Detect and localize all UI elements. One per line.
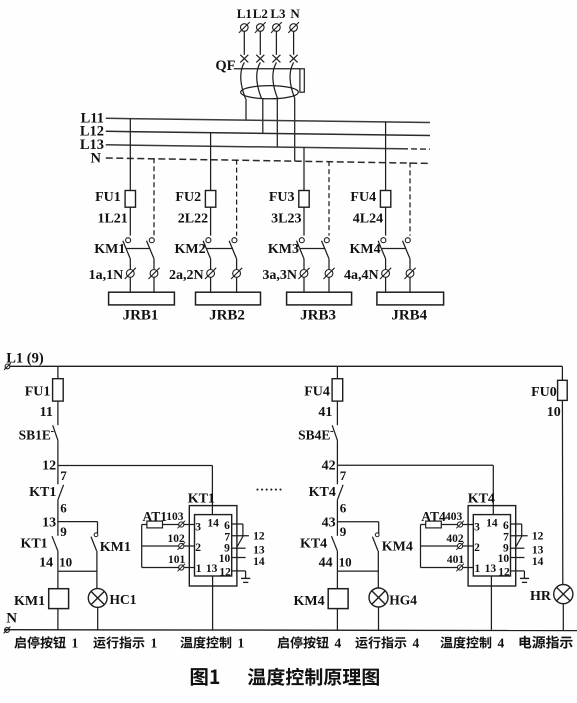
wire control bus L1(9) (10, 365, 563, 367)
svg-text:KT4: KT4 (309, 485, 336, 500)
svg-text:KT1: KT1 (188, 492, 215, 507)
wire 4L24 (353, 207, 386, 235)
wire from supply terminal to QF (275, 31, 277, 54)
svg-text:KT4: KT4 (468, 492, 495, 507)
wire terminals to heater JRB3 (304, 278, 329, 293)
bus L12 (80, 124, 430, 140)
svg-text:SB4E: SB4E (298, 428, 330, 443)
wire KT1 pin 9 to node 13 (232, 545, 265, 557)
fuse FU3 (269, 190, 309, 207)
svg-text:101: 101 (168, 554, 186, 566)
svg-text:42: 42 (322, 458, 336, 473)
svg-text:KM2: KM2 (174, 242, 205, 257)
svg-text:AT4: AT4 (421, 509, 446, 524)
svg-text:KM4: KM4 (349, 242, 380, 257)
label temperature control 1 (180, 635, 244, 650)
ellipsis between sections (256, 489, 281, 491)
svg-text:1a,1N: 1a,1N (89, 268, 124, 283)
wire neutral tap branch 1 (dashed) (153, 158, 155, 235)
wire from supply terminal to QF (243, 31, 245, 54)
fuse FU0 (531, 366, 567, 400)
svg-text:KM1: KM1 (14, 594, 45, 609)
svg-text:FU3: FU3 (269, 190, 295, 205)
wire terminals to heater JRB1 (130, 278, 154, 293)
wire KT4 pin 7 to node 12 (511, 531, 544, 543)
svg-text:43: 43 (322, 516, 336, 531)
svg-text:6: 6 (340, 500, 347, 515)
wire KT4 pin 10 to node 14 (511, 556, 544, 568)
fuse FU1 (95, 190, 135, 207)
svg-text:KM4: KM4 (382, 539, 413, 554)
timer contact KT1 pins 9-10 (20, 522, 72, 572)
circuit breaker QF (215, 55, 304, 99)
svg-text:6: 6 (60, 500, 67, 515)
label start/stop button 1 (14, 635, 78, 650)
wire node 44 branch (337, 570, 378, 572)
terminal wire 103 (166, 511, 194, 528)
wire node 42 to KT4 pin 14 (337, 465, 493, 514)
svg-text:KM4: KM4 (293, 594, 324, 609)
node L3 (incoming phase) (270, 6, 286, 33)
svg-text:11: 11 (40, 405, 53, 420)
wire contacts to terminals branch 4 (386, 259, 410, 270)
svg-text:3: 3 (195, 521, 201, 533)
wire from supply terminal to QF (259, 31, 261, 54)
svg-text:9: 9 (60, 524, 67, 539)
svg-text:2: 2 (195, 542, 201, 554)
fuse FU4 (304, 366, 342, 401)
terminals 1a,1N (89, 268, 160, 283)
node L1 (incoming phase) (237, 6, 252, 33)
svg-text:13: 13 (206, 563, 218, 575)
wire KT4 pin 9 to node 13 (511, 545, 544, 557)
svg-text:JRB3: JRB3 (300, 308, 336, 324)
wire button to node 12 (57, 440, 59, 465)
sensor loop wire KT1 (141, 525, 143, 568)
indicator lamp HG4 (369, 588, 417, 630)
svg-text:2: 2 (474, 542, 480, 554)
node L1 (9) control supply (4, 351, 44, 370)
svg-text:KM1: KM1 (100, 540, 131, 555)
wire node 14 branch (58, 570, 98, 572)
svg-text:41: 41 (318, 405, 332, 420)
svg-text:FU4: FU4 (350, 190, 376, 205)
svg-text:4: 4 (335, 635, 342, 650)
svg-text:JRB2: JRB2 (209, 308, 245, 324)
svg-text:12: 12 (498, 566, 510, 578)
svg-text:9: 9 (340, 524, 347, 539)
svg-text:14: 14 (532, 556, 544, 568)
svg-text:1: 1 (196, 563, 202, 575)
wire QF pole L1 to bus L11 (245, 99, 247, 121)
svg-text:14: 14 (486, 518, 498, 530)
heater JRB1 (109, 292, 175, 323)
svg-text:1L21: 1L21 (97, 212, 127, 227)
wire 11 (40, 401, 58, 425)
terminals 2a,2N (169, 268, 242, 283)
svg-text:1: 1 (72, 635, 79, 650)
terminal wire 102 (142, 533, 195, 550)
svg-text:N: N (290, 6, 300, 21)
svg-text:401: 401 (447, 554, 465, 566)
caption Figure 1 temperature control schematic (191, 668, 379, 686)
wire neutral tap branch 4 (dashed) (409, 162, 411, 235)
svg-text:13: 13 (42, 516, 56, 531)
wire KT4 pin 13 to N (490, 576, 492, 630)
svg-text:3L23: 3L23 (271, 212, 301, 227)
pushbutton SB1E (19, 425, 58, 442)
wire node 12 to KT1 pin 14 (58, 466, 213, 515)
heater JRB4 (377, 292, 444, 323)
label temperature control 4 (440, 635, 504, 650)
temperature controller KT4 (468, 492, 516, 586)
wire KT1 pin 7 to node 12 (232, 531, 265, 543)
sensor loop wire KT4 (420, 525, 422, 568)
svg-text:10: 10 (59, 555, 72, 570)
contact inside KT1 output (236, 536, 243, 549)
wire control bus N (4, 629, 577, 632)
svg-text:10: 10 (547, 405, 561, 420)
label start/stop button 4 (277, 635, 341, 650)
temperature sensor AT1 (142, 509, 179, 528)
contactor main contacts KM1 (94, 238, 154, 259)
wire KT1 pin 10 to node 14 (232, 556, 265, 568)
ground at KT4 pin 12 (511, 571, 530, 583)
contactor main contacts KM2 (174, 238, 236, 259)
svg-text:FU0: FU0 (531, 385, 557, 400)
svg-text:13: 13 (485, 563, 497, 575)
svg-text:QF: QF (215, 58, 235, 74)
wire node 43 branch (337, 522, 378, 534)
svg-text:HR: HR (530, 589, 552, 604)
svg-text:14: 14 (39, 556, 53, 571)
svg-text:HC1: HC1 (110, 592, 137, 607)
svg-text:7: 7 (340, 468, 347, 483)
wire KT1 pin 13 to N (212, 576, 214, 630)
svg-text:L1: L1 (237, 6, 252, 21)
contactor coil KM4 (293, 571, 348, 630)
svg-text:6: 6 (224, 520, 230, 532)
terminal wire 401 (421, 554, 474, 571)
fuse FU1 (25, 366, 63, 401)
svg-text:2L22: 2L22 (178, 212, 208, 227)
wire 2L22 (178, 207, 211, 235)
wire neutral tap branch 2 (dashed) (236, 160, 238, 236)
svg-text:1: 1 (238, 635, 245, 650)
wire node 13 branch (58, 522, 98, 534)
svg-text:KM1: KM1 (94, 242, 125, 257)
wire contacts to terminals branch 3 (304, 259, 329, 270)
wire phase tap to fuse FU1 (129, 119, 131, 191)
node N (incoming neutral) (288, 6, 300, 33)
bus L13 (80, 137, 430, 153)
svg-text:KT4: KT4 (300, 537, 327, 552)
fuse FU2 (175, 190, 215, 207)
svg-text:14: 14 (253, 556, 265, 568)
svg-text:3a,3N: 3a,3N (262, 268, 297, 283)
svg-text:HG4: HG4 (389, 593, 417, 608)
svg-text:13: 13 (532, 545, 544, 557)
svg-text:L3: L3 (270, 6, 286, 21)
svg-text:14: 14 (207, 518, 219, 530)
svg-text:4: 4 (413, 635, 420, 650)
wire contacts to terminals branch 2 (211, 259, 237, 270)
svg-text:L2: L2 (253, 6, 268, 21)
svg-text:6: 6 (503, 520, 509, 532)
svg-text:3: 3 (474, 521, 480, 533)
contact inside KT4 output (515, 536, 522, 549)
svg-text:12: 12 (219, 566, 231, 578)
timer contact KT1 pins 7-6 (29, 466, 67, 522)
wire button to node 42 (336, 440, 338, 465)
terminal wire 101 (142, 554, 195, 571)
fuse FU4 (350, 190, 390, 207)
auxiliary contact KM4 (372, 533, 413, 588)
ground at KT1 pin 12 (232, 571, 251, 583)
svg-text:1: 1 (475, 563, 481, 575)
svg-text:4L24: 4L24 (353, 212, 383, 227)
svg-text:103: 103 (166, 511, 184, 523)
wire terminals to heater JRB4 (386, 278, 410, 293)
svg-text:403: 403 (445, 511, 463, 523)
pushbutton SB4E (298, 425, 337, 442)
wire 3L23 (271, 207, 304, 235)
svg-text:44: 44 (319, 556, 333, 571)
svg-text:N: N (91, 150, 102, 166)
svg-text:SB1E: SB1E (19, 428, 51, 443)
bus N (dashed) (91, 150, 430, 166)
wire from supply terminal to QF (293, 31, 295, 54)
terminals 3a,3N (262, 268, 334, 283)
wire contacts to terminals branch 1 (130, 259, 154, 270)
terminal wire 403 (445, 511, 473, 528)
indicator lamp HC1 (88, 589, 136, 630)
auxiliary contact KM1 (91, 533, 131, 589)
svg-text:2a,2N: 2a,2N (169, 268, 204, 283)
contactor coil KM1 (14, 571, 69, 630)
svg-text:13: 13 (253, 545, 265, 557)
timer contact KT4 pins 7-6 (309, 466, 347, 522)
contactor main contacts KM4 (349, 238, 410, 259)
wire KT1 pin 6 link (232, 524, 243, 536)
svg-text:JRB4: JRB4 (391, 308, 427, 324)
svg-text:N: N (6, 611, 17, 627)
svg-text:FU2: FU2 (175, 190, 201, 205)
heater JRB2 (196, 292, 261, 323)
svg-text:FU4: FU4 (304, 384, 330, 399)
label power indicator (520, 636, 573, 649)
svg-text:12: 12 (532, 531, 544, 543)
svg-text:12: 12 (253, 531, 265, 543)
svg-text:7: 7 (60, 468, 67, 483)
label run indicator 4 (355, 635, 419, 650)
indicator lamp HR (530, 585, 573, 631)
svg-text:4a,4N: 4a,4N (344, 268, 379, 283)
svg-text:KT1: KT1 (29, 485, 56, 500)
svg-text:AT1: AT1 (143, 509, 168, 524)
wire terminals to heater JRB2 (211, 278, 237, 293)
wire QF pole L2 to bus L12 (262, 99, 264, 134)
node N control (4, 611, 18, 634)
svg-text:10: 10 (219, 553, 231, 565)
wire QF pole L3 to bus L13 (276, 99, 278, 148)
svg-text:JRB1: JRB1 (123, 308, 159, 324)
svg-text:4: 4 (498, 635, 505, 650)
wire 10 (547, 400, 563, 584)
wire phase tap to fuse FU4 (385, 122, 387, 191)
svg-text:FU1: FU1 (25, 384, 51, 399)
svg-text:KT1: KT1 (20, 537, 47, 552)
svg-text:10: 10 (339, 555, 352, 570)
temperature sensor AT4 (421, 509, 458, 528)
svg-text:L1 (9): L1 (9) (6, 351, 44, 367)
svg-text:1: 1 (151, 635, 158, 650)
node L2 (incoming phase) (253, 6, 268, 33)
wire 1L21 (97, 207, 130, 235)
wire KT4 pin 6 link (511, 524, 522, 536)
terminals 4a,4N (344, 268, 416, 283)
wire 41 (318, 401, 337, 425)
label run indicator 1 (93, 635, 157, 650)
terminal wire 402 (421, 533, 474, 550)
svg-text:12: 12 (42, 458, 56, 473)
svg-text:FU1: FU1 (95, 190, 121, 205)
contactor main contacts KM3 (268, 238, 329, 259)
svg-text:10: 10 (498, 553, 510, 565)
temperature controller KT1 (188, 492, 237, 586)
heater JRB3 (287, 292, 352, 323)
wire QF pole N to bus N (294, 99, 296, 162)
svg-text:KM3: KM3 (268, 242, 299, 257)
timer contact KT4 pins 9-10 (300, 522, 352, 572)
wire phase tap to fuse FU3 (303, 148, 305, 191)
wire neutral tap branch 3 (dashed) (328, 161, 330, 236)
bus L11 (81, 110, 430, 126)
wire phase tap to fuse FU2 (210, 133, 212, 191)
